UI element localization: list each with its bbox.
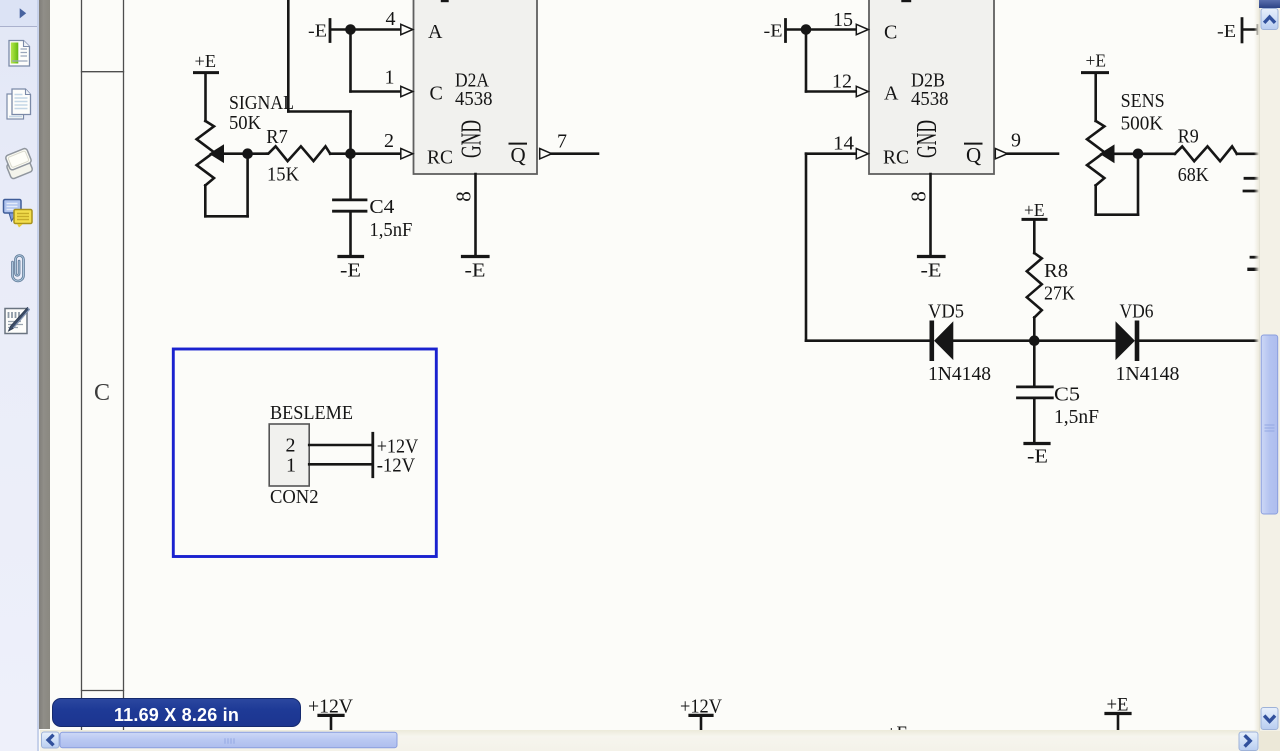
connector frame blue box: [173, 349, 436, 557]
pin 1 input triangle: [401, 86, 413, 96]
wire feedback down to diode row: [805, 154, 808, 341]
IC D2A top cropped text mark: [442, 0, 448, 2]
wire GND pin8 of D2A: [474, 174, 477, 255]
diode VD5 triangle: [935, 323, 953, 359]
pot bottom lead to loop: [204, 185, 207, 216]
horizontal thumb grip: [225, 738, 234, 744]
IC U-D2A box: [414, 0, 538, 174]
wire CON2 pin1: [309, 463, 371, 466]
IC U-D2B box: [869, 0, 994, 174]
wire vertical from top at x=288: [287, 0, 290, 112]
capacitor C5 plate bottom: [1018, 396, 1053, 399]
node dot diode row: [1029, 335, 1040, 346]
power flag -E at D2A input: [329, 20, 332, 42]
IC D2B top cropped text mark: [903, 0, 911, 2]
capacitor C4 bottom lead: [349, 213, 352, 255]
frame zone divider top: [82, 71, 124, 73]
partial symbol right edge mark 1: [1251, 256, 1259, 259]
wire junction down to pin12 row: [805, 30, 808, 92]
page edge dark strip: [39, 0, 50, 729]
frame border left line: [81, 0, 83, 731]
left chevron: [48, 736, 52, 744]
down chevron: [1265, 717, 1274, 722]
node dot SENS/R9: [1133, 149, 1144, 160]
bookmarks icon page: [9, 41, 30, 67]
SENS loop bottom wire: [1096, 213, 1138, 216]
wire R9 to right edge: [1237, 153, 1259, 156]
Q-bar overline D2A: [510, 143, 527, 145]
node junction dot at pin15: [801, 24, 812, 35]
wire to pin1 C: [351, 90, 401, 93]
wire diode row left segment: [806, 339, 929, 342]
power flag +E above SENS pot: [1083, 71, 1108, 74]
partial capacitor at right edge plate 1: [1245, 177, 1259, 180]
wire -E to pin4 A: [331, 28, 400, 31]
power stem +12V bottom 2 bar: [690, 714, 712, 717]
Q-bar overline D2B: [965, 143, 982, 145]
scrollbar right button: [1239, 732, 1258, 751]
wire -E to pin15 C: [787, 28, 856, 31]
power flag -E top right: [1241, 19, 1244, 42]
ground bar -E under C5: [1025, 442, 1049, 445]
resistor R8 27K zigzag: [1027, 253, 1042, 318]
power flag -E at D2B input: [784, 20, 787, 42]
connector CON2 body: [269, 424, 309, 486]
scrollbar up button: [1261, 9, 1278, 30]
scrollbar vertical thumb: [1261, 335, 1278, 514]
wire end cap right edge: [1257, 26, 1260, 34]
scrollbar down button: [1261, 708, 1278, 730]
comments icon: [4, 200, 33, 228]
right chevron: [1246, 737, 1250, 746]
wire down into RC node: [349, 112, 352, 154]
node junction dot at pin4: [345, 24, 356, 35]
partial symbol right edge mark 2: [1249, 268, 1259, 271]
pin 12 input triangle: [856, 86, 868, 96]
paperclip icon: [13, 256, 24, 282]
sidebar panel: [0, 0, 37, 751]
pin 9 output triangle: [995, 149, 1007, 159]
partial capacitor at right edge plate 2: [1244, 190, 1259, 193]
node dot wiper/R7: [242, 148, 253, 159]
frame zone divider bottom: [82, 690, 124, 692]
wire pin7 output: [552, 152, 598, 155]
SENS loop up to wiper node: [1137, 154, 1140, 215]
pin 14 input triangle: [856, 149, 868, 159]
capacitor C4 top lead: [349, 154, 352, 199]
loop up to wiper node: [246, 154, 249, 217]
horizontal scrollbar: [40, 730, 1259, 751]
power stem +E bottom bar: [1106, 712, 1130, 715]
capacitor C4 plate bottom: [334, 210, 367, 213]
signature icon: [5, 308, 30, 334]
wire to pin12 A: [806, 90, 856, 93]
ground bar -E under D2A pin8: [463, 255, 489, 258]
power stem +12V bottom 1 bar: [319, 714, 343, 717]
wire junction down to pin1 row: [349, 30, 352, 92]
capacitor C4 plate top: [334, 198, 367, 201]
power stem +12V bottom 1 lead: [330, 717, 333, 731]
pages icon: [7, 89, 31, 119]
resistor R7 15K zigzag: [267, 146, 330, 161]
sidebar icons svg placeholder: [0, 0, 40, 751]
pin 7 output triangle: [540, 149, 552, 159]
wire +E to SENS pot: [1094, 74, 1097, 121]
SENS pot bottom lead: [1094, 185, 1097, 214]
wire pin14 RC feedback horizontal: [806, 152, 856, 155]
ground bar -E under C4: [339, 255, 363, 258]
wiper arrow of SENS pot: [1101, 145, 1115, 162]
loop bottom wire: [205, 215, 247, 218]
resistor R9 68K zigzag: [1175, 146, 1237, 161]
power flag +E above SIGNAL pot: [195, 71, 218, 74]
pin 4 input triangle: [401, 24, 413, 34]
potentiometer SENS 500K zigzag: [1087, 121, 1104, 185]
pin 2 input triangle: [401, 149, 413, 159]
wire horizontal over to RC node: [288, 110, 350, 113]
wire +E to R8: [1033, 221, 1036, 253]
wiper wire to node: [1113, 153, 1175, 156]
layers icon: [5, 148, 33, 180]
power flag +E above R8: [1023, 218, 1046, 221]
scrollbar left button: [42, 732, 60, 748]
wire pin9 output: [1007, 152, 1058, 155]
wire R8 to diode node: [1033, 318, 1036, 341]
wire VD6 to right edge: [1139, 339, 1259, 342]
wiper wire to node: [222, 152, 267, 155]
wire GND pin8 of D2B: [929, 174, 932, 255]
up chevron: [1265, 17, 1274, 22]
tooltip 11.69 X 8.26 in: [52, 698, 301, 727]
wire R7 to RC node: [330, 152, 400, 155]
wire VD5 to node: [953, 339, 1116, 342]
diode VD5 cathode bar: [929, 321, 934, 362]
frame border right line: [123, 0, 125, 731]
capacitor C5 top lead: [1033, 341, 1036, 386]
capacitor C5 plate top: [1018, 385, 1053, 388]
pin 15 input triangle: [856, 24, 868, 34]
connector terminal bar: [371, 433, 374, 476]
ground bar -E under D2B pin8: [919, 255, 945, 258]
diode VD6 cathode bar: [1135, 321, 1140, 362]
potentiometer SIGNAL 50K zigzag: [197, 121, 214, 185]
wire -E to right edge: [1243, 28, 1258, 31]
capacitor C5 bottom lead: [1033, 399, 1036, 442]
sidebar expand arrow: [20, 8, 27, 18]
wiper arrow of SIGNAL pot: [210, 145, 224, 162]
diode VD6 triangle: [1116, 323, 1134, 359]
wire +E to pot: [204, 74, 207, 121]
node dot RC: [345, 148, 356, 159]
vertical scrollbar: [1259, 0, 1280, 751]
power stem +E bottom lead: [1117, 715, 1120, 730]
scrollbar horizontal thumb: [60, 732, 397, 748]
wire CON2 pin2: [309, 444, 371, 447]
thumb grip lines: [1265, 425, 1275, 431]
power stem +12V bottom 2 lead: [700, 717, 703, 731]
